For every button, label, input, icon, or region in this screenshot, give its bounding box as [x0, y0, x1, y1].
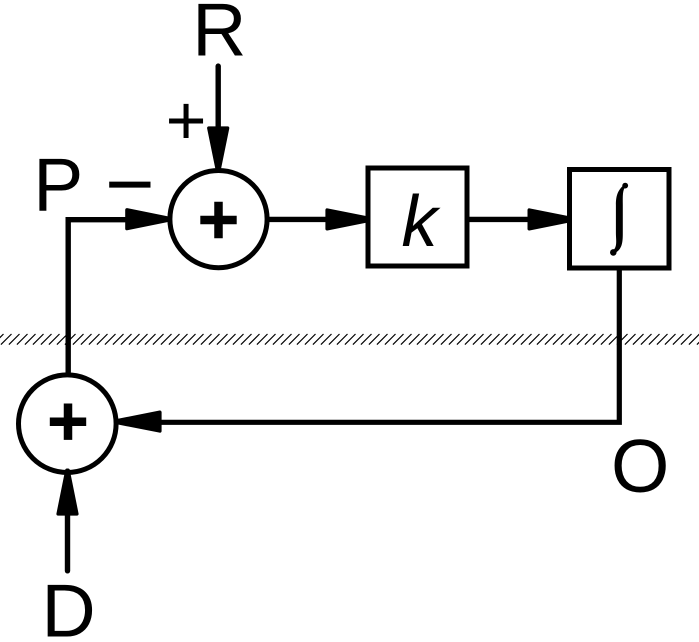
- arrowhead into k block: [327, 210, 371, 229]
- arrowhead into S2 from below: [58, 470, 77, 514]
- arrowhead into integrator block: [529, 210, 573, 229]
- plus symbol inside S2: [50, 417, 86, 426]
- svg-text:R: R: [192, 0, 246, 72]
- arrowhead into S2 from right: [115, 412, 160, 431]
- wire R to summing junction S1: [215, 66, 220, 132]
- arrowhead into S1 from top: [209, 128, 228, 171]
- label integral sign: [610, 183, 628, 256]
- summing junction S1: [170, 171, 267, 268]
- summing junction S2: [19, 375, 117, 473]
- wire k to integrator block: [469, 217, 531, 222]
- hatched boundary line: [0, 334, 699, 345]
- wire S1 to gain block k: [269, 217, 331, 222]
- integrator block (box): [570, 170, 670, 269]
- svg-text:+: +: [166, 81, 207, 159]
- svg-text:O: O: [611, 424, 669, 508]
- svg-text:k: k: [402, 182, 442, 262]
- svg-text:D: D: [42, 568, 96, 642]
- svg-text:P: P: [33, 143, 83, 227]
- plus symbol inside S1: [200, 216, 236, 225]
- wire P feedback: from lower summing junction up and right into S1: [68, 220, 131, 373]
- arrowhead into S1 from left: [127, 210, 170, 229]
- wire D to summing junction S2: [65, 514, 70, 571]
- wire integrator output down and left to summing junction S2: [161, 271, 619, 423]
- gain block k (box): [368, 168, 467, 266]
